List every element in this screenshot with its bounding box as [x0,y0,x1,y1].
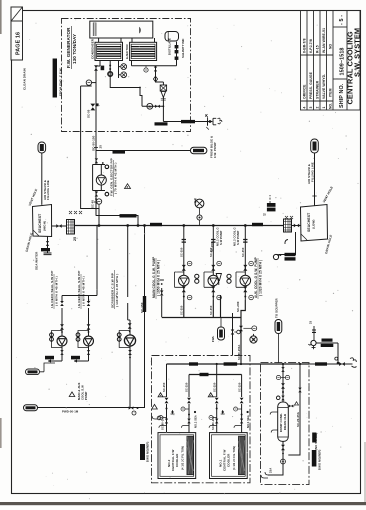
valve on riser x241 [239,326,243,331]
pipe y121.5 from eductor to vent cluster [163,121,207,123]
lower gauges [187,295,192,300]
bypass loop pump3 [236,272,245,287]
svg-text:VALVE W/HYD.: VALVE W/HYD. [322,74,326,99]
svg-text:(4 1/2 JC F/L TON): (4 1/2 JC F/L TON) [232,446,236,470]
small fittings below [95,198,97,200]
svg-text:DISTILLATE: DISTILLATE [168,38,172,55]
svg-text:3: 3 [127,185,129,189]
svg-text:DWG NO(REF): DWG NO(REF) [318,450,322,470]
main riser from HX1/condenser to ejector pump [95,132,97,163]
strainer high [67,220,75,235]
svg-text:SCRUBBER C.S.W P/P: SCRUBBER C.S.W P/P [111,273,115,308]
svg-text:SEA WATER: SEA WATER [35,251,39,270]
valve above ejector pump [95,158,98,163]
cooler no.2 box [158,433,196,479]
svg-text:1509~1518: 1509~1518 [340,47,346,75]
header B y374.5 [189,374,242,376]
svg-text:( 70 M³/H X 42 MTH ): ( 70 M³/H X 42 MTH ) [114,162,118,194]
capsule TO/FROM E/R [190,147,207,153]
svg-text:STRAINER: STRAINER [315,80,319,99]
F.W. GENERATOR dashed box [62,19,191,132]
triangle + J-hook right of line end [152,404,158,409]
gauge right of riser [252,326,257,331]
bypass loops small pumps [52,331,130,348]
valve black on main below [90,104,95,111]
wire: circles column right of HX1 [119,61,121,78]
svg-text:NO.1 COOL.G: NO.1 COOL.G [216,227,220,246]
svg-text:SC-350: SC-350 [209,305,213,315]
gauge on HX2 line [144,68,148,72]
ig deck seal pump no1 [57,336,67,346]
svg-text:SC-350: SC-350 [180,247,184,257]
svg-text:COOLER: COOLER [175,453,179,467]
svg-text:DRAIN CLR: DRAIN CLR [283,414,287,430]
svg-text:SC-80-20A: SC-80-20A [211,416,215,430]
big gauge pair above header center [194,199,204,208]
main cool pump no1 [179,275,190,286]
aux cool pump [240,275,251,286]
svg-text:25: 25 [73,237,77,241]
svg-text:( 1950 M³/H X 25 MTH ): ( 1950 M³/H X 25 MTH ) [157,260,161,296]
left hook fittings [270,412,278,433]
svg-text:SC-20-25A: SC-20-25A [296,412,300,427]
svg-text:6-PJ-7/8: 6-PJ-7/8 [309,39,313,53]
gauge bottom right of pump [105,192,109,196]
svg-text:SC-80-250A: SC-80-250A [237,345,241,360]
svg-text:SC-50-150: SC-50-150 [92,135,96,151]
wire: vessel inlet from header A [282,364,284,402]
warning triangle [125,184,131,189]
svg-text:AUX. COOL.G S.W. PUMP: AUX. COOL.G S.W. PUMP [254,256,258,298]
capped vent cluster end [205,114,222,130]
title block [301,11,361,111]
svg-text:ORIFICE: ORIFICE [302,84,306,99]
gauge top right of pump [105,165,109,169]
PAGE 16 box [11,7,23,60]
wire: fwgen branch down to header [81,86,99,226]
scrubber pump [124,335,135,346]
gauge on branch [96,199,101,204]
instrument circle M1 [121,64,127,70]
svg-text:FROM ENG. C.F.W: FROM ENG. C.F.W [59,68,63,96]
dots on HX1 second drop [109,65,111,67]
main cool pump no2 [208,275,219,286]
valve on drain branch [46,241,49,246]
bypass loop pump2 [204,272,213,287]
cooler outlet drop 2 [241,375,243,433]
wire: suctions to pumps [62,308,89,336]
small circle below gauge [197,215,202,220]
hose connection + black labels above overboard [309,340,317,345]
cooler outlet drop 1 [188,375,190,433]
wire: HX1 second drop [110,61,142,107]
svg-text:PWD-50-1M: PWD-50-1M [62,410,79,414]
strainer low [284,219,292,232]
wire: y65.8 collector [132,61,177,66]
discharge valves [184,286,246,300]
wire: vessel outlet down [268,441,283,475]
valves on ig discharge [60,350,63,355]
svg-text:R-15: R-15 [315,45,319,53]
svg-text:(4 1/2 JC F/L TON): (4 1/2 JC F/L TON) [181,446,185,470]
svg-text:25A: 25A [269,468,273,473]
black label on pipe [155,122,168,125]
svg-text:4: 4 [302,107,306,109]
svg-text:CONDENSER: CONDENSER [91,38,95,59]
stern tube black label w/ dashed line [267,203,276,207]
cooler no.1 box [210,433,248,479]
svg-text:FWL: FWL [211,335,215,342]
svg-text:2: 2 [315,107,319,109]
seachest high box [33,205,52,237]
scrubber discharge down [129,347,131,408]
svg-text:COOLER: COOLER [227,453,231,467]
diamond check valve on HX1 second drop [108,71,113,76]
svg-text:( 1320 M³/H X 25 MTH ): ( 1320 M³/H X 25 MTH ) [259,260,263,296]
wire: drop from header to small pump suction header [62,226,97,302]
branch stub with valve x161.7 [160,280,164,317]
cooler inlet drop 2 [216,364,218,433]
wire: condenser down main [96,61,100,132]
air capsule above [311,139,319,153]
instrument circle M2 [121,72,127,78]
valve at overboard [339,362,345,366]
wire: right line x300 [288,364,300,455]
fitting on y408 [129,406,134,409]
black label PIPE CU-NI [113,150,126,153]
svg-text:- 5 -: - 5 - [339,15,345,25]
page right edge mark [364,442,365,502]
wire: eductor outlet drop [162,97,164,122]
svg-text:6-BR-7/8: 6-BR-7/8 [302,38,306,53]
suction drops from header [182,226,248,271]
bypass loop pump1 [175,272,184,287]
svg-text:I.G DECK SEAL S.W P/P: I.G DECK SEAL S.W P/P [77,271,81,308]
svg-text:I.G DECK SEAL S.W P/P: I.G DECK SEAL S.W P/P [50,271,54,308]
upper gauges [187,261,192,266]
condenser HX1 [91,38,123,60]
black bar label right of box [312,433,316,443]
black bar label left of coolers [140,444,145,460]
svg-text:FILLING LINE: FILLING LINE [311,162,315,182]
svg-text:SC-350: SC-350 [241,247,245,257]
svg-text:SC-200: SC-200 [210,242,214,252]
svg-text:SC-250: SC-250 [212,382,216,392]
gauge on eductor stub [147,103,153,109]
junction dots on header [98,224,101,227]
shell penetration hooks [350,358,357,368]
label on overboard line [315,362,327,365]
svg-text:SC-250: SC-250 [162,382,166,392]
ig deck seal pump no2 [84,336,94,346]
evaporator HX2 [125,42,156,60]
svg-text:CLEAN DRAIN: CLEAN DRAIN [23,68,27,90]
wire capsule to seachest low [314,153,316,206]
svg-text:SC-250: SC-250 [237,382,241,392]
svg-text:( 6 M³/H X 45 MTH ): ( 6 M³/H X 45 MTH ) [55,276,59,306]
F.W. GENERATOR label [66,26,77,69]
black label at drain [41,248,50,251]
instrument circle lower [250,334,257,343]
svg-text:SC-200: SC-200 [236,301,240,312]
svg-text:(LOW): (LOW) [312,220,316,230]
valve on ig pump 2 suction [87,324,91,329]
wire: capsule to seachest [41,153,43,205]
horizontal line y408 [37,407,145,409]
svg-text:SEACHEST: SEACHEST [307,212,311,232]
seachest drain branch with cap [44,236,52,254]
valve on ig pump 1 suction [60,324,64,329]
FWL capsule hanging below header [220,317,222,327]
vertical vessel [278,402,289,441]
hose conn below strainer low [279,232,296,255]
page bottom edge shadow [0,502,366,505]
svg-text:SC-350: SC-350 [180,305,184,315]
butterfly between chest and strainer [56,224,61,228]
svg-text:NO.1 SEA: NO.1 SEA [246,415,250,428]
air filling capsule above [38,142,46,153]
hook ends bottom left [261,472,268,478]
black label pair beside valve [101,66,105,71]
wire: x155.5 drop to eductor [156,66,164,85]
valve on eductor stub [155,105,160,108]
valve below pump [95,192,98,197]
svg-text:NO.2 COOL.G: NO.2 COOL.G [233,227,237,246]
side valve at vessel top right [288,405,294,407]
wire: into pumps [184,265,246,275]
ejector pump P [96,175,106,185]
svg-text:( 140 M³/H X 45 MTH ): ( 140 M³/H X 45 MTH ) [115,274,119,307]
svg-text:SC-65: SC-65 [91,199,95,208]
valve on scrubber discharge [128,350,132,355]
wire: gauge-valve stub to eductor drop [142,105,163,107]
junction dots [240,363,242,365]
dots at pump suctions [61,331,63,333]
svg-text:25: 25 [99,145,103,149]
valve below vessel [281,445,285,450]
svg-text:W-AN WIRE-51: W-AN WIRE-51 [322,28,326,53]
wire: gauge stub [92,82,96,84]
F.W. GEN EJECTOR pump loop [93,151,105,216]
wire: vessel outlet drop [176,42,178,66]
svg-text:F.W. GENERATOR: F.W. GENERATOR [66,27,71,68]
svg-text:3: 3 [309,107,313,109]
ejector suction elbow to header [96,216,138,226]
wire: scrubber drop [128,226,130,336]
page left edge mark middle [0,418,2,448]
gauge PI on condenser line [86,80,91,85]
instrument stack between pump1-2 [195,274,199,278]
svg-text:SC-250: SC-250 [185,382,189,392]
upper drop valves ig pumps [60,301,64,306]
valve clusters on 4 drops [158,393,174,428]
aux spare line x232.5 [232,313,234,356]
svg-text:F.W. PUMP: F.W. PUMP [213,142,217,158]
svg-text:NO: NO [328,43,332,49]
grating marks above strainer [69,211,82,214]
instrument stacks left of small pumps [50,333,54,337]
funnel symbol between pumps [216,274,221,286]
black capsule lower left [26,369,40,375]
black label on header left [150,223,162,226]
svg-text:( 6 M³/H X 45 MTH ): ( 6 M³/H X 45 MTH ) [82,276,86,306]
gauge below vessel [281,459,286,464]
cooler inlet drop 1 [166,364,168,433]
instrument stack between pump2-3 [227,274,231,278]
valve on scrubber suction [128,323,132,328]
triangle + text cluster above y408 [69,392,75,397]
svg-text:SHIP NO.: SHIP NO. [339,83,345,108]
e-circle under line [132,411,136,415]
tick on line [312,195,316,197]
distillate vessel [165,32,185,59]
svg-text:(HIGH): (HIGH) [43,221,47,231]
butterfly valve [294,224,299,228]
svg-text:NO.: NO. [328,103,332,109]
svg-text:TO SCUPPER: TO SCUPPER [275,297,279,318]
black label arrows ig discharge [45,356,54,360]
black ref label upper-left [53,59,57,98]
valve on condenser main [94,65,98,70]
svg-text:S.W PUMP: S.W PUMP [219,231,223,245]
svg-text:1: 1 [322,107,326,109]
svg-text:S.W PUMP: S.W PUMP [236,231,240,245]
valve on x155 drop [154,67,157,72]
svg-text:NO.2 SEA: NO.2 SEA [194,415,198,428]
black label on suction elbow [120,214,137,217]
svg-text:25: 25 [263,214,266,217]
svg-text:PAGE 16: PAGE 16 [15,32,21,55]
tick 25 on riser [94,147,98,149]
svg-text:SC-50: SC-50 [87,109,91,118]
svg-text:ITEM: ITEM [328,88,332,97]
svg-text:EJECTOR: EJECTOR [125,43,129,59]
svg-text:130 TON/DAY: 130 TON/DAY [72,34,77,64]
svg-text:SEACHEST: SEACHEST [38,213,42,233]
svg-text:SALINITY IND: SALINITY IND [181,39,185,59]
svg-text:(NO SCALE): (NO SCALE) [314,433,318,450]
seachest low box [301,205,328,242]
black label on header right [252,223,263,226]
piping inside generator box [92,42,177,132]
dots below valves [183,296,185,298]
page left edge mark top [0,0,2,34]
svg-text:FILLING LINE: FILLING LINE [46,180,50,200]
suction valves [182,265,186,271]
svg-text:DWG NO(REF): DWG NO(REF) [146,442,150,462]
generator shell [90,21,155,42]
dots on collector [139,87,141,89]
svg-text:25: 25 [309,320,313,324]
black labels on headers [189,362,198,365]
eductor body [160,85,166,100]
capsule TO at left [24,405,38,411]
svg-text:PUMP: PUMP [84,391,88,400]
header A y364 [167,363,310,365]
wire to capsule [40,363,56,372]
black label FROM CB-DB on pipe [181,120,195,123]
fittings above vessel [281,367,284,372]
diamond on x155 drop [153,76,157,82]
valve stack on vessel outlet [175,45,179,48]
discharge header y317 [162,295,246,364]
svg-text:S.W. SYSTEM: S.W. SYSTEM [352,28,361,77]
svg-text:SC-80-20A: SC-80-20A [161,416,165,430]
pipe cu-ni horizontal y150.5 [96,150,190,152]
ig pumps discharge [48,346,89,361]
svg-text:PRESS. GAUGE: PRESS. GAUGE [309,71,313,99]
